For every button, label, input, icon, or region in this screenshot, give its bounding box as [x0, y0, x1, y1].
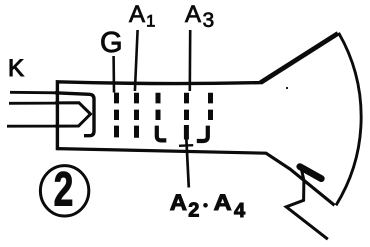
- svg-text:A: A: [185, 1, 201, 28]
- leader A2-A4 (from bottom of column 4 down through wall): [186, 138, 189, 188]
- screen face arc: [336, 33, 361, 206]
- svg-text:G: G: [100, 27, 123, 59]
- svg-text:A: A: [170, 190, 187, 215]
- svg-text:K: K: [8, 55, 24, 82]
- speck: [286, 87, 288, 89]
- svg-text:3: 3: [203, 9, 215, 32]
- leader A1: [135, 30, 138, 91]
- electrode A1 : dashed column 2: [134, 93, 139, 138]
- circled figure number 2: [40, 166, 88, 216]
- svg-text:4: 4: [234, 200, 246, 222]
- electrode column 3 with foot hook right: [156, 93, 161, 120]
- svg-text:2: 2: [188, 200, 199, 222]
- tube neck: left edge and top edge: [57, 82, 261, 150]
- electrode G : dashed column 1: [114, 93, 119, 138]
- electrode A3 : dashed column 4: [184, 93, 189, 140]
- electrode column 5 with foot hook left: [208, 93, 213, 120]
- crossbar on A2-A4 leader: [179, 144, 193, 147]
- external lead from funnel coating: [286, 170, 328, 240]
- svg-text:2: 2: [54, 162, 74, 215]
- final anode contact tick (thick): [300, 167, 322, 179]
- svg-text:1: 1: [146, 12, 155, 31]
- svg-text:A: A: [214, 190, 232, 215]
- leader G: [112, 56, 115, 93]
- wire heater/cathode lead 1: [10, 91, 57, 94]
- svg-text:A: A: [129, 1, 145, 28]
- cathode / heater arrow: [55, 103, 91, 126]
- tube neck bottom edge to funnel bend: [57, 149, 334, 206]
- wire cathode lead 2: [9, 102, 57, 105]
- funnel upper diagonal (thick): [261, 33, 339, 82]
- leader A3: [189, 30, 192, 91]
- wire cathode lead 3: [7, 125, 57, 128]
- grid cup (Wehnelt cylinder): [55, 93, 94, 136]
